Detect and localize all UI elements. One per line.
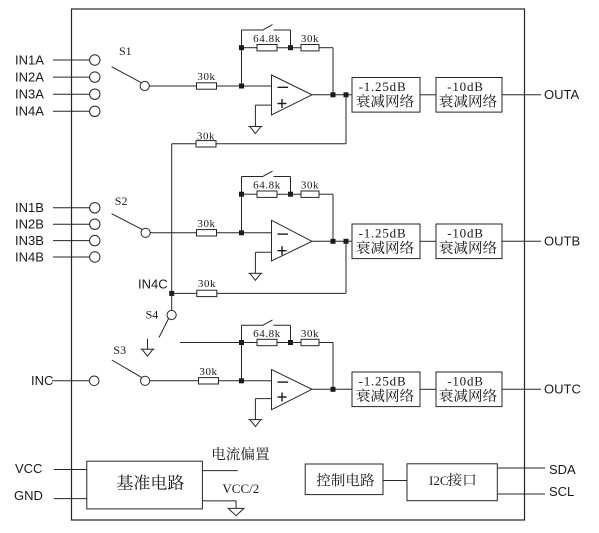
- svg-text:IN1A: IN1A: [15, 52, 44, 67]
- svg-text:S4: S4: [146, 308, 159, 322]
- junction 64.8k-30k chA: [288, 45, 293, 50]
- svg-text:30k: 30k: [301, 328, 319, 340]
- svg-text:30k: 30k: [301, 180, 319, 192]
- label control circuit: [317, 473, 375, 486]
- switch S3 pole contact: [141, 376, 150, 385]
- svg-text:IN2A: IN2A: [15, 70, 44, 85]
- label current bias: [213, 447, 269, 461]
- svg-text:-10dB: -10dB: [447, 79, 484, 94]
- svg-text:IN3A: IN3A: [15, 87, 44, 102]
- node inverting input chA: [239, 84, 244, 89]
- wire node to 64.8k chA: [242, 47, 258, 49]
- junction node-64.8k chB: [239, 192, 244, 197]
- ground chA: [248, 127, 262, 134]
- svg-text:64.8k: 64.8k: [253, 33, 281, 45]
- wire op-amp output chB: [312, 240, 352, 242]
- svg-text:IN4A: IN4A: [15, 104, 44, 119]
- svg-text:S1: S1: [119, 44, 132, 58]
- junction output-feedback chA: [331, 92, 336, 97]
- pin IN4A: [90, 106, 100, 116]
- wire feedback node vertical chA: [241, 30, 243, 86]
- svg-text:-10dB: -10dB: [447, 374, 484, 389]
- resistor 64.8k feedback chC: [257, 339, 277, 345]
- svg-text:GND: GND: [14, 488, 43, 503]
- wire control to I2C: [383, 480, 407, 482]
- wire bypass row left chC: [242, 324, 263, 326]
- svg-text:I2C: I2C: [429, 473, 449, 488]
- svg-text:-1.25dB: -1.25dB: [359, 226, 407, 241]
- block -1.25dB attenuator chA: [352, 78, 420, 113]
- node IN4C junction: [169, 291, 174, 296]
- svg-text:VCC/2: VCC/2: [222, 481, 259, 496]
- svg-text:64.8k: 64.8k: [253, 328, 281, 340]
- wire SCL lead: [497, 493, 545, 495]
- junction 64.8k-30k chB: [288, 192, 293, 197]
- pin IN2A: [90, 72, 100, 82]
- svg-text:30k: 30k: [197, 131, 215, 143]
- wire S3 pole to input resistor: [150, 380, 199, 382]
- svg-text:SDA: SDA: [549, 462, 576, 477]
- wire non-inverting input chC: [255, 398, 271, 400]
- junction output-feedback chC: [331, 387, 336, 392]
- switch S2 pole contact: [141, 228, 150, 237]
- label attenuation network 2 chB: [439, 241, 496, 255]
- wire 30k to right vertical chA: [319, 47, 333, 49]
- wire node to 64.8k chC: [242, 342, 258, 344]
- wire bypass row left chA: [242, 29, 263, 31]
- wire ground stem: [147, 339, 149, 349]
- IC boundary box: [72, 9, 525, 520]
- resistor 30k feedback chC: [301, 339, 319, 345]
- op-amp U2 chB: [272, 220, 313, 261]
- block -10dB attenuator chC: [436, 372, 502, 407]
- svg-text:IN4C: IN4C: [138, 276, 168, 291]
- wire input resistor to op-amp minus chC: [219, 380, 272, 382]
- svg-text:IN4B: IN4B: [15, 249, 44, 264]
- svg-text:OUTB: OUTB: [544, 234, 580, 249]
- wire input resistor to op-amp minus chA: [217, 85, 272, 87]
- wire IN1B lead: [53, 207, 90, 209]
- wire 64.8k to 30k chA: [277, 47, 301, 49]
- wire between attenuators chC: [420, 388, 436, 390]
- switch S2 arm: [112, 214, 143, 230]
- block -1.25dB attenuator chC: [352, 372, 420, 407]
- wire op-amp output chA: [312, 94, 352, 96]
- wire bypass row left chB: [242, 176, 263, 178]
- wire INC lead: [52, 380, 90, 382]
- wire feedback node vertical chC: [241, 325, 243, 381]
- wire IN3B lead: [53, 240, 90, 242]
- wire OUTA node down to mix row A: [345, 95, 347, 144]
- wire bypass row right chA: [274, 29, 291, 31]
- switch bypass (shorts 64.8k) chA: [262, 25, 273, 31]
- svg-text:-1.25dB: -1.25dB: [359, 374, 407, 389]
- resistor 30k mix row A: [196, 141, 216, 147]
- svg-text:OUTA: OUTA: [544, 87, 579, 102]
- label reference circuit: [117, 474, 184, 490]
- label attenuation network chB: [356, 241, 413, 255]
- svg-text:-1.25dB: -1.25dB: [359, 79, 407, 94]
- block -10dB attenuator chB: [436, 224, 502, 259]
- wire between attenuators chA: [420, 94, 436, 96]
- svg-text:IN1B: IN1B: [15, 200, 44, 215]
- resistor 64.8k feedback chA: [257, 45, 277, 51]
- wire IN1A lead: [53, 59, 90, 61]
- wire IN3A lead: [53, 93, 90, 95]
- wire S1 pole to input resistor: [149, 85, 196, 87]
- wire op-amp output chC: [312, 388, 352, 390]
- arrow VCC/2 down: [228, 508, 244, 515]
- resistor 30k feedback chB: [301, 191, 319, 197]
- wire OUTB node down to mix row B: [345, 241, 347, 293]
- wire GND lead: [54, 498, 87, 500]
- label attenuation network chA: [356, 94, 413, 108]
- svg-text:S3: S3: [113, 343, 126, 357]
- block reference circuit 基准电路: [87, 461, 203, 509]
- svg-text:30k: 30k: [198, 278, 216, 290]
- wire between attenuators chB: [420, 240, 436, 242]
- svg-text:64.8k: 64.8k: [253, 180, 281, 192]
- ground chC: [248, 420, 262, 427]
- wire non-inverting input chA: [255, 104, 271, 106]
- wire 64.8k to 30k chC: [277, 342, 301, 344]
- wire mix row B horizontal: [172, 292, 346, 294]
- wire bypass down to resistor row chC: [290, 325, 292, 342]
- wire VCC/2 down: [235, 501, 237, 509]
- resistor 30k feedback chA: [301, 45, 319, 51]
- switch bypass (shorts 64.8k) chB: [262, 171, 273, 177]
- svg-text:OUTC: OUTC: [544, 382, 581, 397]
- pin IN3B: [90, 235, 100, 245]
- wire IN4B lead: [53, 256, 90, 258]
- pin IN4B: [90, 252, 100, 262]
- svg-text:30k: 30k: [301, 33, 319, 45]
- resistor 30k mix row B: [197, 290, 217, 296]
- wire feedback node vertical chB: [241, 177, 243, 233]
- wire IN4A lead: [53, 110, 90, 112]
- wire VCC/2 output: [202, 500, 236, 502]
- resistor 30k input chC: [199, 378, 219, 384]
- node inverting input chB: [239, 230, 244, 235]
- pin IN3A: [90, 89, 100, 99]
- label attenuation network 2 chA: [439, 94, 496, 108]
- junction OUTA to mix row: [344, 92, 349, 97]
- wire 30k to right vertical chB: [319, 193, 333, 195]
- junction 64.8k-30k chC: [288, 340, 293, 345]
- switch S1 arm: [112, 67, 142, 83]
- wire to ground chA: [254, 105, 256, 126]
- resistor 30k input chA: [197, 83, 217, 89]
- switch bypass (shorts 64.8k) chC: [262, 320, 273, 326]
- block -1.25dB attenuator chB: [352, 224, 420, 259]
- junction node-64.8k chA: [239, 45, 244, 50]
- wire to OUTA pin: [502, 94, 541, 96]
- pin IN1A: [90, 55, 100, 65]
- wire IN2B lead: [53, 223, 90, 225]
- wire to ground chC: [254, 399, 256, 420]
- wire non-inverting input chB: [255, 251, 271, 253]
- switch S4 pole contact: [167, 310, 176, 319]
- block control circuit 控制电路: [305, 464, 383, 495]
- wire S2 pole to input resistor: [150, 232, 196, 234]
- wire to ground chB: [254, 252, 256, 273]
- wire VCC lead: [54, 469, 87, 471]
- pin IN2B: [90, 219, 100, 229]
- label attenuation network chC: [356, 389, 413, 403]
- block I2C interface I2C接口: [407, 464, 497, 501]
- switch S3 arm: [112, 360, 142, 378]
- wire SDA lead: [497, 467, 545, 469]
- node inverting input chC: [239, 378, 244, 383]
- wire IN2A lead: [53, 76, 90, 78]
- wire stub left of 64.8k row C: [180, 342, 242, 344]
- wire bypass down to resistor row chA: [290, 30, 292, 48]
- svg-text:IN3B: IN3B: [15, 233, 44, 248]
- junction output-feedback chB: [331, 239, 336, 244]
- wire current-bias stub: [202, 470, 237, 472]
- resistor 30k input chB: [197, 230, 217, 236]
- svg-text:VCC: VCC: [15, 461, 42, 476]
- svg-text:30k: 30k: [197, 71, 215, 83]
- wire 64.8k to 30k chB: [277, 193, 301, 195]
- svg-text:30k: 30k: [199, 366, 217, 378]
- svg-text:-10dB: -10dB: [447, 226, 484, 241]
- switch S1 pole contact: [140, 81, 149, 90]
- block -10dB attenuator chA: [436, 78, 502, 113]
- svg-text:INC: INC: [31, 373, 53, 388]
- wire bypass row right chB: [274, 176, 291, 178]
- wire bypass down to resistor row chB: [290, 177, 292, 195]
- wire feedback right vertical chA: [332, 48, 334, 95]
- switch S4 arm: [159, 319, 169, 338]
- pin INC: [89, 376, 99, 386]
- wire vertical IN4C bus: [171, 144, 173, 311]
- wire feedback right vertical chC: [332, 343, 334, 390]
- pin IN1B: [90, 203, 100, 213]
- wire to OUTB pin: [502, 240, 541, 242]
- wire bypass row right chC: [274, 324, 291, 326]
- svg-text:30k: 30k: [197, 218, 215, 230]
- wire feedback right vertical chB: [332, 194, 334, 241]
- label attenuation network 2 chC: [439, 389, 496, 403]
- ground near S3: [141, 349, 155, 356]
- op-amp U3 chC: [272, 370, 313, 410]
- resistor 64.8k feedback chB: [257, 191, 277, 197]
- svg-text:S2: S2: [115, 194, 128, 208]
- wire node to 64.8k chB: [242, 193, 258, 195]
- junction OUTB to mix row: [344, 239, 349, 244]
- wire mix row A horizontal: [172, 143, 346, 145]
- ground chB: [248, 273, 262, 280]
- junction node-64.8k chC: [239, 340, 244, 345]
- svg-text:SCL: SCL: [549, 484, 574, 499]
- op-amp U1 chA: [272, 75, 313, 115]
- svg-text:IN2B: IN2B: [15, 217, 44, 232]
- wire input resistor to op-amp minus chB: [217, 232, 272, 234]
- wire 30k to right vertical chC: [319, 342, 333, 344]
- wire to OUTC pin: [502, 388, 541, 390]
